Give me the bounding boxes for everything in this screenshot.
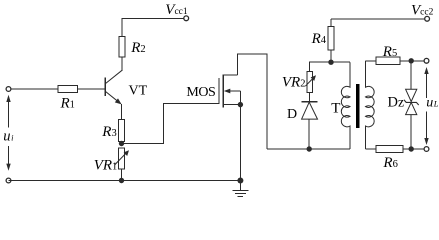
svg-text:R5: R5 xyxy=(382,44,397,60)
transformer primary coil xyxy=(341,62,350,149)
wire collector to R2 xyxy=(121,36,123,71)
wire Vcc2 to R4 xyxy=(330,19,332,27)
svg-text:VT: VT xyxy=(129,84,148,99)
resistor R4 xyxy=(328,26,334,50)
svg-text:D: D xyxy=(287,107,297,122)
potentiometer VR2 xyxy=(305,71,316,92)
wire MOS drain to primary bottom xyxy=(237,54,266,149)
uL voltage arrow up xyxy=(424,67,428,98)
wire secondary top to R5 xyxy=(366,60,377,62)
resistor R5 xyxy=(376,57,400,64)
bottom line primary side xyxy=(267,148,350,150)
svg-text:VR2: VR2 xyxy=(282,74,306,90)
Vcc2 terminal xyxy=(425,16,430,21)
ground xyxy=(232,181,248,197)
uL voltage arrow down xyxy=(424,112,428,146)
wire Vcc2 top xyxy=(331,18,425,20)
wire node to VR2 xyxy=(309,62,311,71)
svg-text:R6: R6 xyxy=(382,155,397,171)
zener Dz xyxy=(404,89,419,114)
junction dot D anode xyxy=(307,146,312,151)
svg-text:Vcc2: Vcc2 xyxy=(411,2,434,18)
ui voltage arrow up xyxy=(6,95,10,128)
Vcc1 terminal xyxy=(184,16,189,21)
resistor R2 xyxy=(119,36,125,57)
svg-text:ui: ui xyxy=(3,128,14,144)
wire input to R1 xyxy=(11,88,58,90)
svg-text:R1: R1 xyxy=(60,96,75,112)
svg-text:T: T xyxy=(331,101,340,117)
wire gate from node xyxy=(122,104,219,144)
junction dot R4 bottom node xyxy=(328,60,333,65)
input terminal bottom xyxy=(6,178,11,183)
svg-text:uL: uL xyxy=(426,96,439,111)
transistor VT xyxy=(105,70,122,104)
svg-text:Dz: Dz xyxy=(388,95,404,111)
output terminal bottom xyxy=(424,147,429,152)
wire R2 to Vcc1 xyxy=(122,18,184,36)
wire source down to ground rail xyxy=(239,105,241,181)
potentiometer VR1 xyxy=(115,148,129,169)
svg-text:R2: R2 xyxy=(130,40,145,56)
junction dot ground node xyxy=(237,178,243,184)
resistor R6 xyxy=(376,145,403,152)
junction dot R5/Dz xyxy=(409,58,414,63)
input terminal top xyxy=(6,87,11,92)
svg-text:MOS: MOS xyxy=(186,85,215,100)
transformer secondary coil xyxy=(366,61,375,149)
wire R5 to output top xyxy=(400,60,425,62)
wire R1 to VT base xyxy=(78,88,105,90)
diode D xyxy=(302,102,318,119)
wire R4 to node xyxy=(330,50,332,62)
resistor R3 xyxy=(119,120,125,142)
svg-text:Vcc1: Vcc1 xyxy=(165,2,188,18)
wire R6 to output bottom xyxy=(403,148,425,150)
wire secondary bottom to R6 xyxy=(366,148,377,150)
junction dot VR1 bottom xyxy=(119,178,124,183)
svg-text:R3: R3 xyxy=(101,124,116,140)
wire VR2 to D xyxy=(309,93,311,102)
MOSFET MOS xyxy=(219,75,240,108)
wire VR1 to bottom rail xyxy=(121,170,123,181)
bottom rail left xyxy=(9,180,241,182)
wire emitter to R3 xyxy=(121,104,123,120)
junction dot R6/Dz bottom xyxy=(409,146,414,151)
wire Dz to bottom xyxy=(410,115,412,149)
transformer core xyxy=(356,84,359,128)
resistor R1 xyxy=(58,86,78,93)
svg-text:VR1: VR1 xyxy=(94,158,118,174)
ui voltage arrow down xyxy=(6,146,10,171)
junction dot MOS source/body xyxy=(238,102,243,107)
output terminal top xyxy=(424,58,429,63)
node junction dot R3/VR1 xyxy=(119,141,124,146)
wire dot to Dz xyxy=(410,61,412,90)
wire D anode down xyxy=(308,119,310,149)
svg-text:R4: R4 xyxy=(311,31,327,47)
node line to VR2 and primary xyxy=(309,61,350,63)
